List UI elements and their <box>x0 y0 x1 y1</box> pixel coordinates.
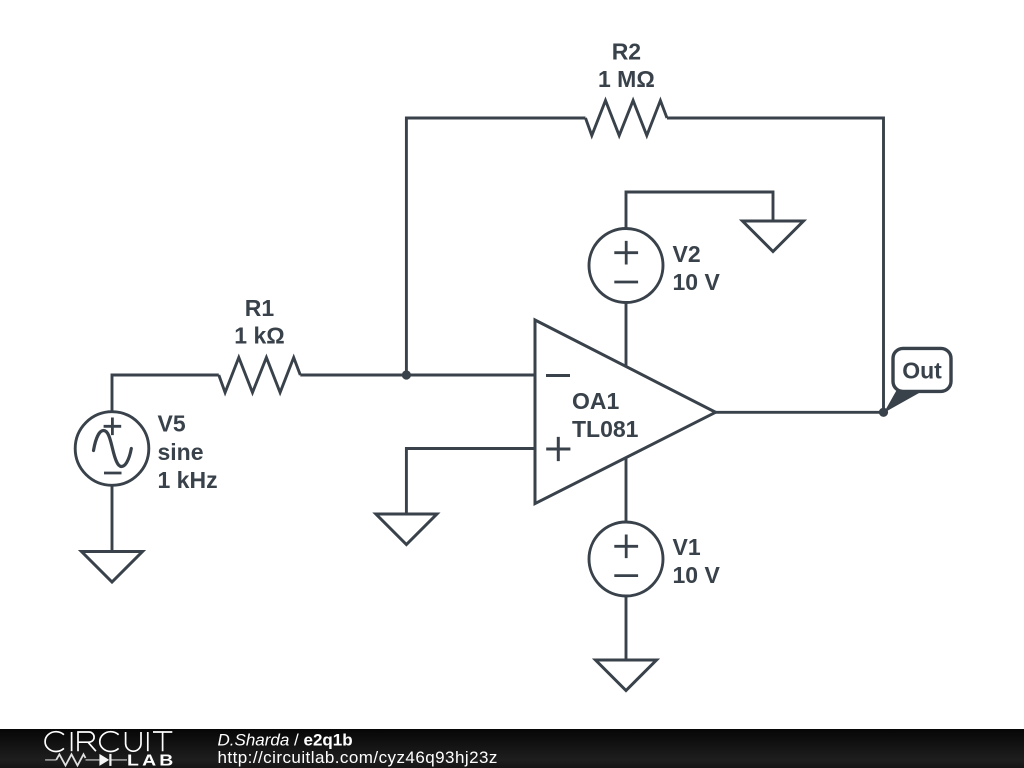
wire feedback riser node A to R2 <box>406 118 585 375</box>
ground (non-inverting input) <box>376 514 437 545</box>
svg-text:R1: R1 <box>245 295 275 321</box>
wire V5 top to R1 <box>112 375 219 413</box>
voltage source V2 <box>589 229 663 303</box>
label V1 <box>673 534 721 588</box>
svg-text:10 V: 10 V <box>673 269 721 295</box>
svg-text:Out: Out <box>902 357 942 383</box>
node Out flag <box>884 348 951 412</box>
ground (V5) <box>82 552 143 583</box>
svg-text:OA1: OA1 <box>572 388 620 414</box>
footer bar <box>0 729 1024 768</box>
junction node A dot <box>402 370 411 379</box>
label V2 <box>673 241 721 295</box>
wire op-amp V- pin to V1 <box>625 458 628 523</box>
wire V5 bottom to ground <box>111 485 114 552</box>
svg-text:sine: sine <box>158 439 204 465</box>
voltage source V5 (sine) <box>75 412 149 486</box>
wire V2 top to ground <box>626 192 773 229</box>
svg-text:10 V: 10 V <box>673 562 721 588</box>
ground (V2) <box>743 221 804 252</box>
svg-text:LAB: LAB <box>127 751 177 768</box>
svg-text:TL081: TL081 <box>572 416 639 442</box>
voltage source V1 <box>589 522 663 596</box>
wire V2 to op-amp V+ pin <box>625 303 628 367</box>
svg-text:V5: V5 <box>158 410 186 436</box>
junction output node dot <box>879 408 888 417</box>
svg-text:V2: V2 <box>673 241 701 267</box>
wire R1 to op-amp inverting input <box>300 374 535 377</box>
resistor R1 <box>219 358 300 393</box>
svg-text:D.Sharda / e2q1b: D.Sharda / e2q1b <box>218 731 353 750</box>
wire R2 to output node <box>667 118 884 412</box>
ground (V1) <box>596 660 657 691</box>
label OA1 <box>572 388 639 442</box>
resistor R2 <box>586 101 668 136</box>
label R2 <box>598 38 655 92</box>
label R1 <box>234 295 284 348</box>
svg-text:http://circuitlab.com/cyz46q93: http://circuitlab.com/cyz46q93hj23z <box>218 748 498 767</box>
wire V1 bottom to ground <box>625 596 628 660</box>
CircuitLab logo wire-resistor-diode <box>45 759 127 761</box>
CircuitLab logo text CIRCUIT <box>45 732 172 752</box>
svg-text:1 kΩ: 1 kΩ <box>234 323 284 349</box>
svg-text:1 MΩ: 1 MΩ <box>598 66 655 92</box>
svg-text:1 kHz: 1 kHz <box>158 467 218 493</box>
label V5 <box>158 410 218 493</box>
wire op-amp output <box>716 411 884 414</box>
wire op-amp non-inverting input to ground <box>406 449 535 515</box>
op-amp OA1 <box>535 320 716 504</box>
svg-text:R2: R2 <box>612 38 641 64</box>
svg-text:V1: V1 <box>673 534 701 560</box>
